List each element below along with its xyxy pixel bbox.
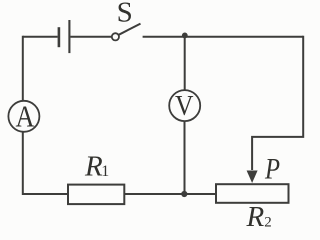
svg-text:V: V (175, 91, 194, 122)
battery positive plate (long bar) (68, 20, 70, 53)
resistor R1 body (68, 185, 124, 205)
node: top junction dot (182, 33, 188, 39)
wire: left vertical from top-left corner down to ammeter top (22, 36, 24, 101)
battery negative plate (short bar) (58, 27, 61, 47)
svg-text:S: S (117, 0, 133, 28)
wire: top junction down to voltmeter (184, 37, 186, 90)
wire: rheostat left terminal to bottom junction (184, 193, 216, 195)
wire: switch to top junction and on to top-right corner (143, 36, 304, 38)
svg-text:A: A (16, 98, 36, 133)
wire: voltmeter down to bottom junction (184, 122, 186, 194)
wiper arrowhead P onto rheostat (247, 171, 258, 184)
wire: right vertical from top-right corner down, wiper arm to P (252, 36, 303, 170)
rheostat R2 body (216, 184, 289, 203)
switch S lever (open blade) (119, 24, 141, 35)
svg-text:R2: R2 (246, 201, 272, 228)
wire: top-left horizontal from corner to battery (23, 36, 58, 38)
wire: resistor R1 to bottom-left corner and up to ammeter (23, 133, 68, 195)
wire: bottom junction to resistor R1 (125, 193, 186, 195)
switch S pivot circle (112, 33, 119, 40)
svg-text:R1: R1 (84, 150, 109, 182)
svg-text:P: P (264, 152, 280, 185)
ammeter U-A circle (8, 101, 39, 132)
node: bottom junction dot (181, 191, 187, 197)
voltmeter U-V circle (169, 90, 200, 121)
wire: battery to switch (71, 36, 112, 38)
